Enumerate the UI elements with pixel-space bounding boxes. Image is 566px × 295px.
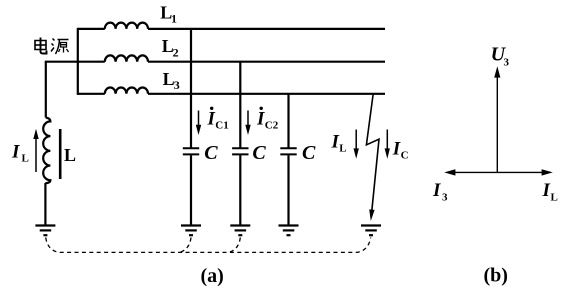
svg-text:3: 3	[442, 192, 448, 204]
svg-text:I: I	[207, 109, 216, 130]
wire L to ground	[44, 183, 46, 226]
ground G4	[279, 226, 299, 236]
wire L1 left	[78, 28, 105, 30]
label I3	[432, 180, 448, 204]
wire C2 lower	[239, 155, 241, 225]
svg-text:C2: C2	[265, 120, 279, 132]
wire L2 right	[148, 61, 385, 63]
ground G5 fault	[361, 226, 381, 236]
svg-text:3: 3	[504, 57, 510, 69]
ground G1	[35, 226, 55, 236]
svg-text:C: C	[204, 142, 218, 164]
svg-text:I: I	[432, 180, 441, 201]
wire C1 lower	[190, 155, 192, 225]
label C of C2	[252, 142, 266, 164]
label U3	[491, 44, 510, 69]
wire C3 upper	[287, 94, 289, 148]
ground G2	[181, 226, 201, 236]
svg-text:(a): (a)	[201, 265, 224, 287]
inductor L1	[105, 23, 148, 29]
inductor L (arc suppression coil)	[43, 118, 50, 184]
capacitor C3	[280, 148, 296, 154]
arrow I_C fault	[385, 130, 390, 159]
label I_C fault	[392, 139, 409, 162]
capacitor C2	[232, 148, 248, 154]
wire C1 upper	[190, 29, 192, 148]
arrow I_L up	[33, 129, 38, 172]
label IL	[542, 180, 558, 204]
label I_L fault	[331, 132, 347, 155]
inductor L2	[105, 55, 148, 61]
svg-text:2: 2	[173, 45, 179, 59]
wire L2 left	[78, 61, 105, 63]
svg-text:C: C	[302, 142, 316, 164]
label (b)	[484, 265, 508, 287]
arrow I_C2	[245, 111, 250, 136]
label I_C2	[256, 107, 279, 132]
svg-text:I: I	[392, 139, 401, 160]
label C of C1	[204, 142, 218, 164]
wire L3 left	[78, 93, 105, 95]
wire L1 right	[148, 28, 385, 30]
svg-text:L: L	[551, 192, 558, 204]
source label 电源	[35, 38, 69, 55]
svg-text:1: 1	[171, 12, 177, 26]
fault lightning bolt	[366, 94, 379, 221]
svg-text:L: L	[64, 145, 76, 165]
inductor L3	[105, 88, 148, 94]
label L	[64, 145, 76, 165]
wire C2 upper	[239, 62, 241, 148]
svg-text:C: C	[252, 142, 266, 164]
label (a)	[201, 265, 224, 287]
svg-text:3: 3	[174, 78, 180, 92]
svg-text:L: L	[339, 143, 346, 155]
svg-text:(b): (b)	[484, 265, 508, 287]
phasor I3 (left) and IL (right)	[444, 169, 553, 175]
ground G3	[230, 226, 250, 236]
label I_L	[11, 142, 29, 165]
arrow I_L fault	[354, 130, 359, 159]
label L1	[160, 3, 177, 26]
svg-text:I: I	[256, 109, 265, 130]
arrow I_C1	[196, 111, 201, 136]
svg-text:C: C	[401, 150, 409, 162]
wire L3 right	[148, 93, 385, 95]
wire source down	[45, 62, 47, 118]
svg-text:I: I	[11, 142, 20, 163]
label C of C3	[302, 142, 316, 164]
label L2	[162, 36, 179, 60]
phasor U3	[494, 66, 500, 172]
label L3	[163, 69, 180, 92]
dashed earth return wire	[46, 238, 371, 253]
svg-text:I: I	[331, 132, 340, 153]
core bar of L	[59, 129, 62, 179]
svg-text:C1: C1	[215, 120, 228, 132]
wire C3 lower	[287, 155, 289, 225]
svg-text:I: I	[542, 180, 551, 201]
svg-text:L: L	[22, 153, 29, 165]
capacitor C1	[183, 148, 199, 154]
wire source horizontal	[45, 61, 79, 63]
label I_C1	[207, 107, 229, 132]
node bus (left vertical bus)	[77, 28, 79, 95]
